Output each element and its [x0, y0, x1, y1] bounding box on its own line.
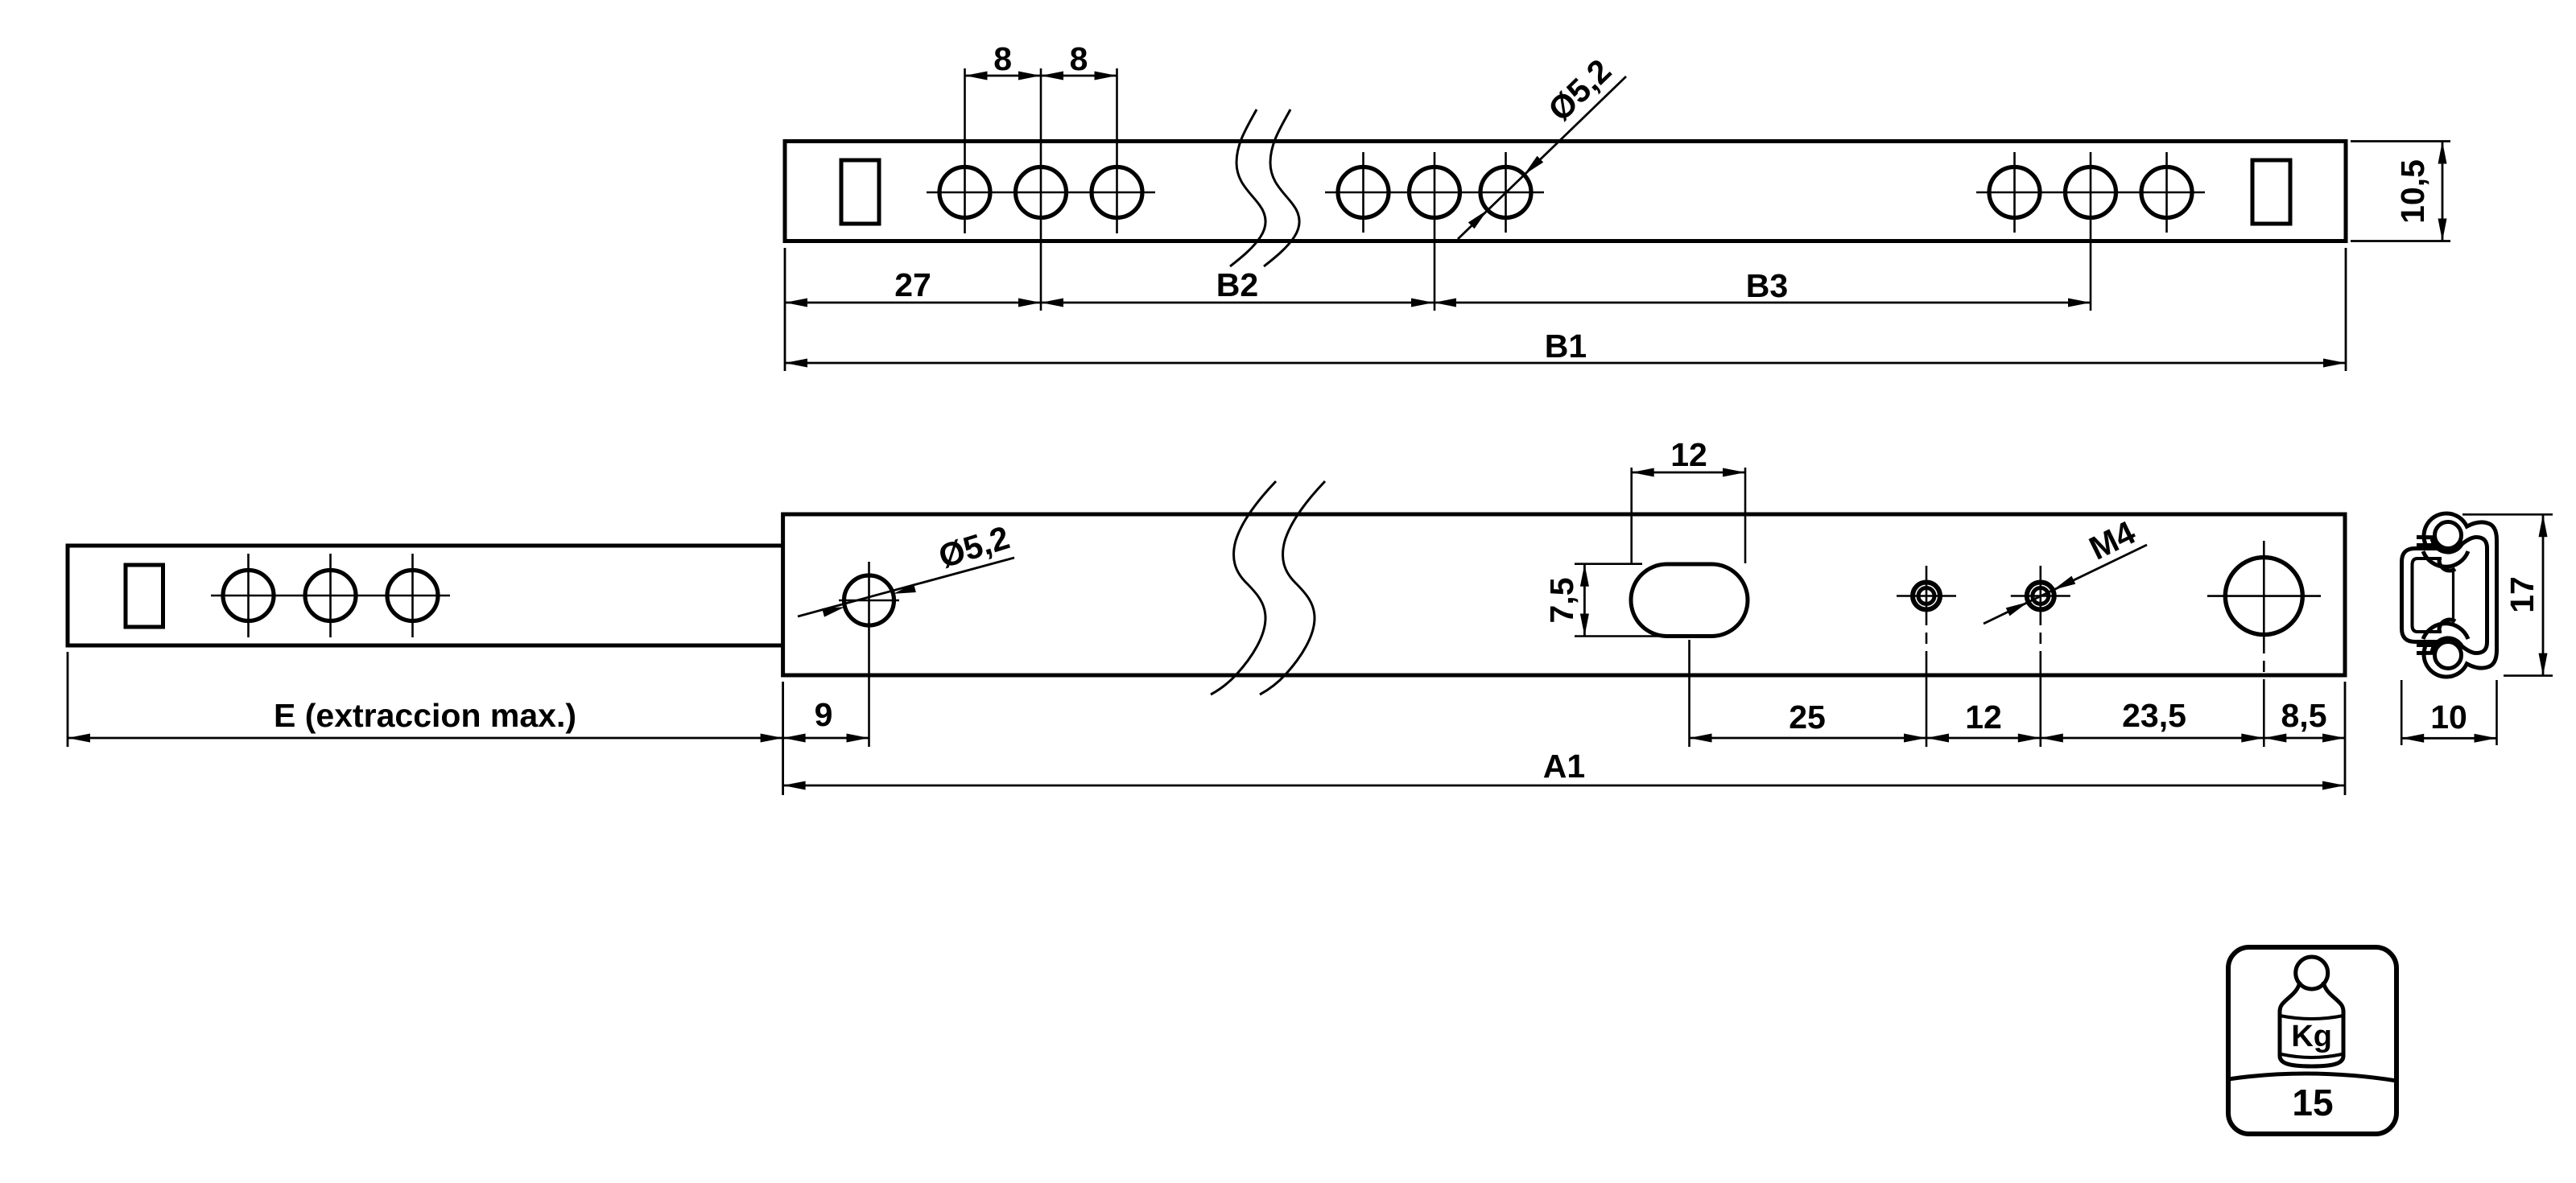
- M4 threaded hole 2: [2011, 566, 2070, 747]
- top rail hole L1 Ø5.2: [939, 68, 990, 233]
- dim 17 arrows: [2539, 514, 2548, 537]
- dim 10,5 ext top: [2351, 140, 2450, 142]
- dim 8 right line: [1041, 75, 1117, 77]
- section inner hook bottom curl: [2439, 620, 2455, 630]
- dim 7,5 ext bottom: [1575, 635, 1695, 637]
- big hole crosshair h: [2207, 595, 2321, 597]
- outer rail break line 2: [1260, 481, 1325, 695]
- top rail hole R2 Ø5.2: [2066, 152, 2116, 311]
- dim E arrows: [68, 734, 90, 743]
- top rail Ø5,2 arrows: [1521, 156, 1543, 178]
- outer rail break line 1: [1211, 481, 1276, 695]
- weight knob: [2296, 957, 2328, 989]
- dim 12 arrows: [1926, 734, 1949, 743]
- top rail break line 2: [1264, 109, 1299, 266]
- svg-text:8,5: 8,5: [2281, 697, 2327, 734]
- top rail hole R1 Ø5.2: [1989, 152, 2040, 233]
- section ball bottom: [2435, 642, 2462, 669]
- top rail hole R3 Ø5.2: [2141, 152, 2192, 233]
- dim 8 left line: [965, 75, 1042, 77]
- inner rail slot: [126, 565, 163, 627]
- dim B2 line: [1041, 302, 1434, 304]
- dim 10 ext left: [2401, 680, 2403, 745]
- top rail slot left: [841, 160, 879, 224]
- dim 10 line: [2401, 737, 2496, 740]
- top rail hole L2 Ø5.2: [1016, 68, 1067, 311]
- load rating box: [2228, 947, 2396, 1134]
- dim E line: [68, 737, 783, 740]
- svg-text:Ø5,2: Ø5,2: [935, 519, 1013, 575]
- A right extension: [2344, 682, 2347, 795]
- top rail slot right: [2252, 160, 2290, 224]
- svg-text:Ø5,2: Ø5,2: [1541, 52, 1618, 129]
- svg-text:10,5: 10,5: [2394, 159, 2431, 224]
- svg-text:B3: B3: [1746, 267, 1788, 304]
- top rail break line 1: [1230, 109, 1265, 266]
- svg-text:8: 8: [1070, 40, 1088, 77]
- section inner hook top: [2423, 551, 2468, 567]
- dim 12 line: [1926, 737, 2041, 740]
- dim 25 arrows: [1690, 734, 1712, 743]
- front hole crosshair h: [839, 600, 899, 602]
- oval slot centerline: [1688, 640, 1690, 747]
- dim 7,5 ext top: [1575, 563, 1642, 565]
- svg-text:15: 15: [2292, 1082, 2333, 1123]
- top rail Ø5,2 leader: [1458, 76, 1626, 239]
- dim 10,5 ext bottom: [2351, 240, 2450, 242]
- E extension left: [67, 652, 69, 747]
- svg-text:27: 27: [894, 266, 931, 303]
- section inner member outer: [2402, 549, 2440, 642]
- svg-text:Kg: Kg: [2291, 1020, 2332, 1053]
- A left extension: [782, 682, 784, 795]
- dim 23,5 line: [2041, 737, 2264, 740]
- section ball top: [2435, 522, 2462, 549]
- weight rim top: [2280, 1016, 2343, 1019]
- dim 23,5 arrows: [2041, 734, 2063, 743]
- dim B1 line: [785, 362, 2346, 365]
- big hole: [2225, 558, 2302, 635]
- weight rim bottom: [2281, 1054, 2342, 1057]
- dim 8 left arrows: [965, 72, 988, 80]
- front Ø5,2 leader: [798, 558, 1014, 616]
- inner rail hole 3: [387, 554, 438, 637]
- dim 10,5 arrows: [2438, 142, 2447, 164]
- svg-text:E (extraccion max.): E (extraccion max.): [274, 697, 576, 734]
- outer rail outline A: [783, 514, 2345, 675]
- dim B3 arrows: [1434, 299, 1456, 307]
- dim 7,5 arrows: [1580, 564, 1589, 587]
- section middle thickness top: [2417, 543, 2434, 546]
- dim 17 line: [2542, 514, 2545, 675]
- dim 8,5 line: [2264, 737, 2345, 740]
- top rail hole M3 Ø5.2: [1480, 152, 1531, 233]
- dim 9 line: [783, 737, 869, 740]
- top rail left group centerline: [927, 192, 1155, 194]
- top rail hole L3 Ø5.2: [1092, 68, 1142, 233]
- svg-text:12: 12: [1670, 436, 1707, 473]
- dim 7,5 line: [1583, 564, 1586, 637]
- section inner hook top curl: [2439, 560, 2455, 571]
- svg-text:8: 8: [993, 40, 1012, 77]
- inner rail hole 2: [305, 554, 356, 637]
- dim A1 line: [783, 785, 2345, 787]
- dim 27 line: [785, 302, 1041, 304]
- M4 threaded hole 1: [1897, 566, 1956, 747]
- M4 arrows: [2051, 576, 2075, 594]
- dim 17 ext top: [2462, 513, 2553, 516]
- big hole crosshair v: [2263, 541, 2265, 747]
- dim 12 oval ext right: [1744, 468, 1747, 563]
- svg-text:A1: A1: [1543, 748, 1585, 785]
- dim 25 line: [1690, 737, 1927, 740]
- dim B3 line: [1434, 302, 2091, 304]
- svg-text:25: 25: [1789, 699, 1826, 736]
- inner rail hole 1: [223, 554, 274, 637]
- inner rail left edge: [66, 544, 70, 648]
- svg-text:M4: M4: [2083, 513, 2141, 567]
- svg-text:23,5: 23,5: [2122, 697, 2186, 734]
- svg-text:B2: B2: [1216, 266, 1258, 303]
- section inner hook bottom: [2423, 624, 2468, 639]
- M4 leader: [1984, 545, 2147, 624]
- dim B1 arrows: [785, 359, 807, 368]
- box wave line: [2228, 1074, 2396, 1081]
- top rail outline B: [785, 142, 2346, 241]
- dim 10 arrows: [2401, 734, 2424, 743]
- front hole crosshair v: [868, 562, 870, 747]
- svg-text:7,5: 7,5: [1543, 578, 1580, 624]
- section middle member: [2417, 538, 2487, 653]
- oval slot: [1631, 564, 1748, 637]
- dim 10,5 line: [2442, 142, 2444, 241]
- dim 8 right arrows: [1041, 72, 1063, 80]
- inner rail centerline: [211, 595, 450, 597]
- dim 12 oval ext left: [1630, 468, 1633, 563]
- B1 extension right: [2345, 248, 2347, 371]
- top rail right group centerline: [1976, 192, 2205, 194]
- section middle thickness bottom: [2417, 644, 2434, 647]
- top rail hole M1 Ø5.2: [1338, 152, 1389, 233]
- top rail mid group centerline: [1325, 192, 1544, 194]
- section outer member: [2424, 513, 2496, 677]
- top rail hole M2 Ø5.2: [1410, 152, 1460, 311]
- dim 12 oval arrows: [1632, 468, 1654, 477]
- dim 8,5 arrows: [2264, 734, 2286, 743]
- B1 extension left: [784, 248, 786, 371]
- inner rail bottom edge: [68, 644, 783, 648]
- weight body: [2280, 982, 2343, 1066]
- svg-text:12: 12: [1965, 699, 2002, 736]
- dim 12 oval line: [1632, 472, 1745, 474]
- dim A1 arrows: [783, 781, 806, 790]
- svg-text:9: 9: [815, 696, 833, 733]
- dim 9 arrows: [783, 734, 806, 743]
- svg-text:10: 10: [2430, 699, 2467, 736]
- dim 17 ext bottom: [2504, 674, 2553, 677]
- dim 10 ext right: [2495, 680, 2498, 745]
- front Ø5,2 arrows: [892, 583, 916, 598]
- inner rail top edge: [68, 544, 783, 548]
- svg-text:B1: B1: [1545, 328, 1587, 365]
- dim B2 arrows: [1041, 299, 1063, 307]
- section seam line: [2452, 569, 2454, 621]
- front hole Ø5.2: [844, 575, 894, 625]
- dim 27 arrows: [785, 299, 807, 307]
- svg-text:17: 17: [2504, 576, 2541, 613]
- section inner member inner: [2413, 559, 2442, 632]
